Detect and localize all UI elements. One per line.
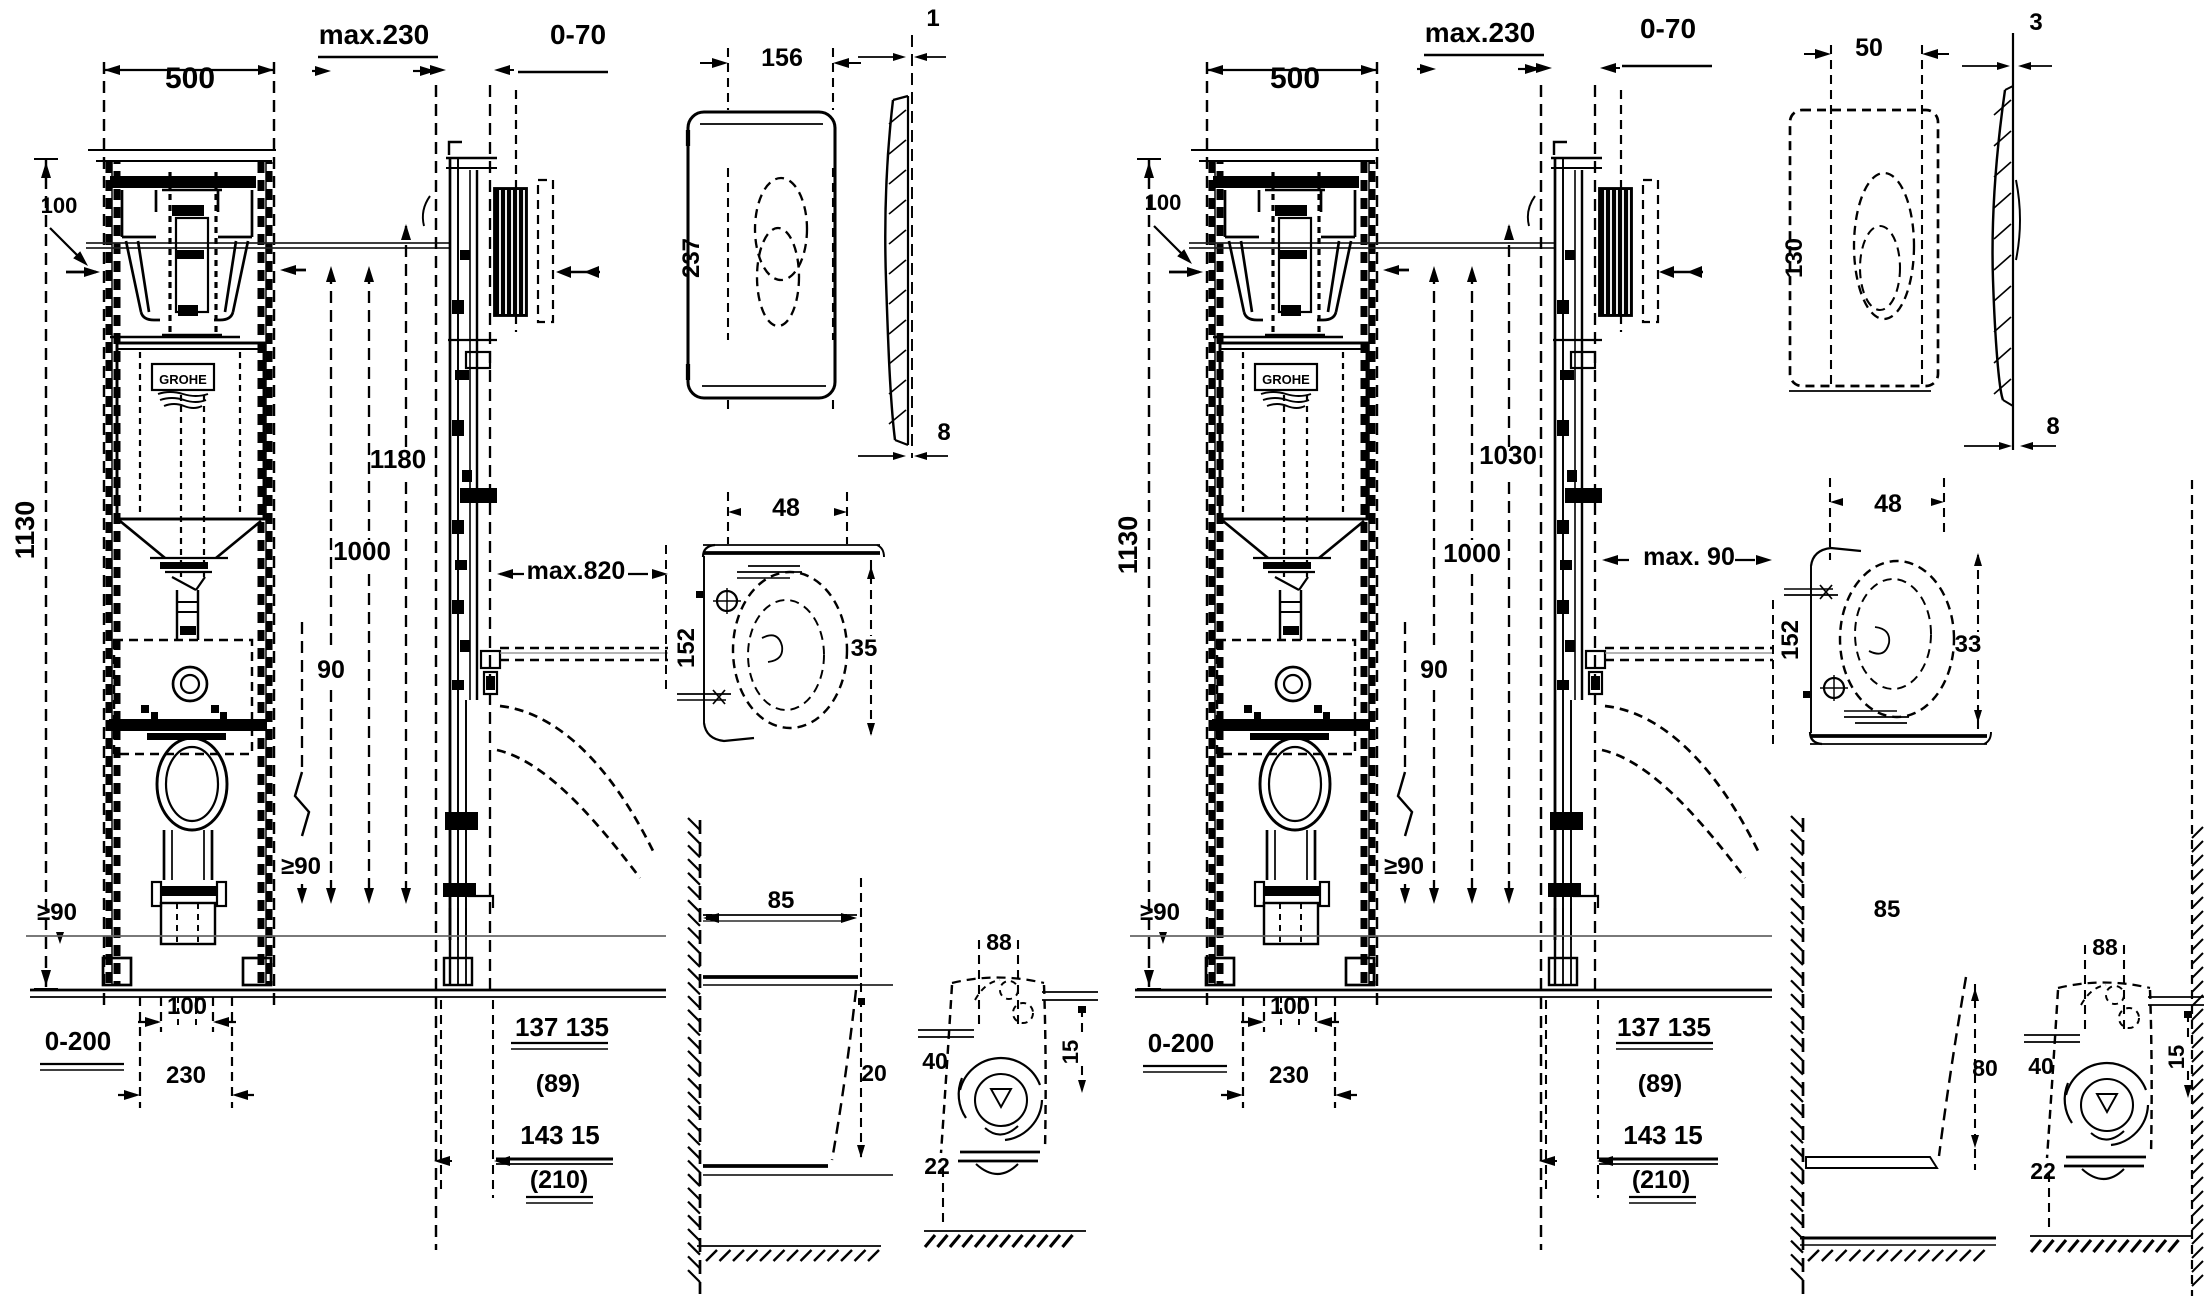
svg-text:1130: 1130	[1113, 516, 1143, 575]
svg-text:22: 22	[2030, 1158, 2056, 1184]
svg-text:1030: 1030	[1479, 440, 1537, 470]
svg-text:500: 500	[1270, 62, 1320, 95]
svg-text:33: 33	[1955, 631, 1982, 658]
svg-text:8: 8	[2046, 413, 2059, 440]
svg-text:80: 80	[1972, 1055, 1998, 1081]
svg-text:230: 230	[1269, 1062, 1309, 1089]
svg-text:237: 237	[678, 238, 705, 278]
svg-text:88: 88	[2092, 934, 2118, 960]
svg-text:152: 152	[673, 628, 700, 668]
svg-text:85: 85	[1874, 896, 1901, 923]
svg-text:(210): (210)	[1632, 1166, 1690, 1194]
svg-text:0-70: 0-70	[550, 19, 606, 50]
svg-text:3: 3	[2029, 9, 2042, 36]
svg-text:8: 8	[937, 419, 950, 446]
svg-text:0-200: 0-200	[45, 1026, 112, 1056]
svg-text:max. 90: max. 90	[1643, 543, 1735, 571]
svg-text:40: 40	[2028, 1053, 2054, 1079]
svg-text:(210): (210)	[530, 1166, 588, 1194]
svg-text:48: 48	[772, 494, 800, 522]
svg-text:100: 100	[1270, 993, 1310, 1020]
svg-text:500: 500	[165, 62, 215, 95]
svg-text:85: 85	[768, 887, 795, 914]
svg-text:40: 40	[922, 1048, 948, 1074]
svg-text:max.230: max.230	[319, 19, 430, 50]
svg-text:20: 20	[861, 1060, 887, 1086]
svg-text:156: 156	[761, 44, 803, 72]
svg-text:1: 1	[926, 5, 939, 32]
svg-text:15: 15	[2164, 1045, 2189, 1069]
svg-text:1000: 1000	[333, 536, 391, 566]
svg-text:35: 35	[851, 635, 878, 662]
svg-text:1000: 1000	[1443, 538, 1501, 568]
svg-text:100: 100	[167, 993, 207, 1020]
svg-text:22: 22	[924, 1153, 950, 1179]
svg-text:max.820: max.820	[527, 557, 626, 585]
svg-text:152: 152	[1777, 620, 1804, 660]
svg-text:143 15: 143 15	[1623, 1120, 1703, 1150]
svg-text:143 15: 143 15	[520, 1120, 600, 1150]
svg-text:1180: 1180	[370, 444, 426, 474]
svg-text:137 135: 137 135	[1617, 1012, 1711, 1042]
svg-text:48: 48	[1874, 490, 1902, 518]
svg-text:0-200: 0-200	[1148, 1028, 1215, 1058]
svg-text:max.230: max.230	[1425, 17, 1536, 48]
svg-text:88: 88	[986, 929, 1012, 955]
svg-text:1130: 1130	[10, 501, 40, 560]
svg-text:0-70: 0-70	[1640, 13, 1696, 44]
svg-text:(89): (89)	[536, 1070, 580, 1098]
svg-text:100: 100	[1145, 190, 1182, 215]
svg-text:15: 15	[1058, 1040, 1083, 1064]
svg-text:50: 50	[1855, 34, 1883, 62]
svg-text:100: 100	[41, 193, 78, 218]
svg-text:137 135: 137 135	[515, 1012, 609, 1042]
svg-text:230: 230	[166, 1062, 206, 1089]
svg-text:130: 130	[1781, 238, 1808, 278]
svg-text:(89): (89)	[1638, 1070, 1682, 1098]
